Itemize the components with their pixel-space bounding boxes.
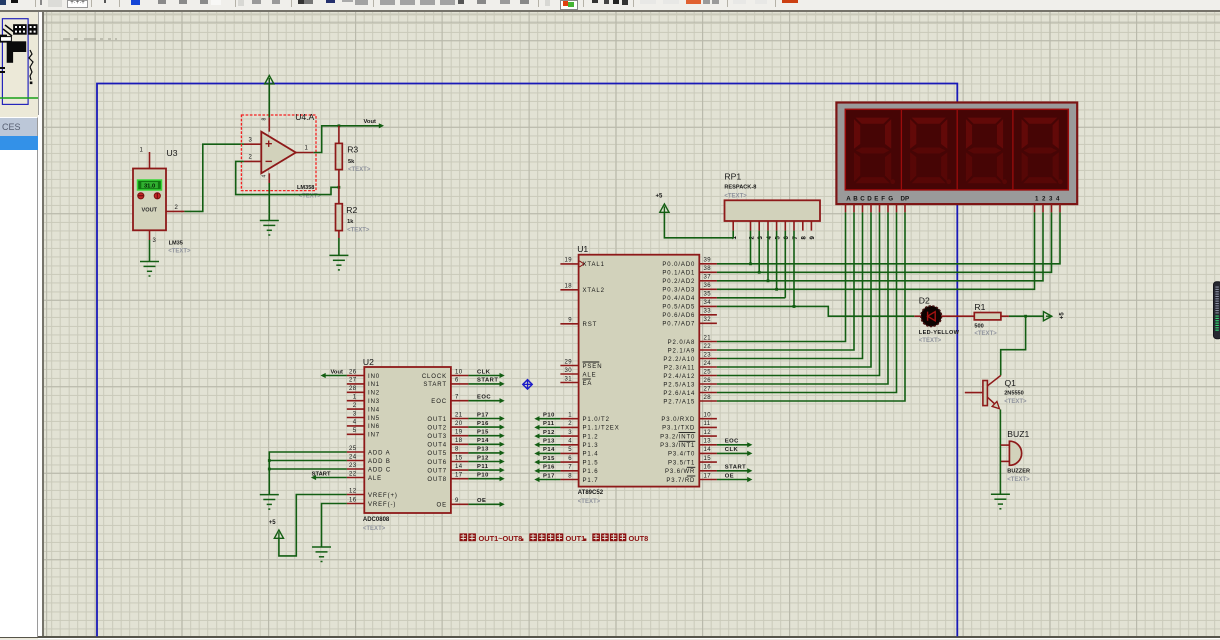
svg-text:39: 39 bbox=[704, 258, 712, 264]
svg-text:OUT8: OUT8 bbox=[427, 477, 447, 483]
svg-text:P10: P10 bbox=[543, 413, 555, 419]
svg-text:OE: OE bbox=[437, 503, 447, 509]
svg-text:P2.4/A12: P2.4/A12 bbox=[663, 374, 695, 380]
svg-text:P1.0/T2: P1.0/T2 bbox=[583, 417, 610, 423]
svg-text:IN2: IN2 bbox=[368, 391, 380, 397]
svg-text:Vout: Vout bbox=[331, 369, 344, 375]
svg-text:22: 22 bbox=[349, 471, 357, 477]
svg-text:P15: P15 bbox=[543, 456, 555, 462]
display digit pin bbox=[1042, 204, 1044, 212]
svg-text:26: 26 bbox=[349, 369, 357, 375]
svg-text:OUT6: OUT6 bbox=[427, 460, 447, 466]
wire U3 pin3 to ground bbox=[149, 240, 151, 262]
U1 pin 10 P3.0/RXD bbox=[699, 418, 717, 420]
ADC U2 (ADC0808) body bbox=[363, 357, 451, 532]
svg-text:23: 23 bbox=[704, 352, 712, 358]
temperature sensor U3 (LM35) bbox=[133, 148, 191, 255]
svg-text:12: 12 bbox=[349, 488, 357, 494]
svg-text:P17: P17 bbox=[543, 473, 555, 479]
U2 pin 28 IN2 bbox=[347, 391, 365, 393]
svg-text:Q1: Q1 bbox=[1005, 378, 1017, 388]
svg-text:1: 1 bbox=[305, 146, 309, 152]
U1 pin 5 P1.4 bbox=[560, 452, 578, 454]
RP1 pin 1 bbox=[732, 221, 734, 231]
svg-text:P3.6/WR: P3.6/WR bbox=[665, 469, 695, 475]
svg-text:25: 25 bbox=[704, 369, 712, 375]
svg-text:24: 24 bbox=[349, 454, 357, 460]
transistor Q1 (2N5550) bbox=[983, 376, 1027, 409]
svg-text:OUT7: OUT7 bbox=[427, 468, 447, 474]
U1 pin 35 P0.4/AD4 bbox=[699, 297, 717, 299]
svg-text:P3.1/TXD: P3.1/TXD bbox=[662, 426, 695, 432]
wire P2.6 to display segment G bbox=[717, 212, 897, 392]
U2 pin 25 ADD A bbox=[347, 451, 365, 453]
RP1 pin 8 bbox=[802, 221, 804, 231]
U1 pin 36 P0.3/AD3 bbox=[699, 288, 717, 290]
svg-text:R3: R3 bbox=[347, 145, 358, 155]
svg-text:P15: P15 bbox=[477, 430, 489, 436]
wire U1 net P11 bbox=[536, 426, 560, 428]
svg-text:P2.7/A15: P2.7/A15 bbox=[663, 399, 695, 405]
svg-text:P0.0/AD0: P0.0/AD0 bbox=[662, 262, 695, 268]
U2 pin 1 IN3 bbox=[347, 400, 365, 402]
svg-text:RP1: RP1 bbox=[724, 172, 741, 182]
display digit pin bbox=[1051, 204, 1053, 212]
LED D2 (LED-YELLOW) bbox=[919, 296, 960, 344]
svg-text:P0.1/AD1: P0.1/AD1 bbox=[662, 271, 695, 277]
svg-text:EOC: EOC bbox=[431, 399, 447, 405]
svg-text:D: D bbox=[867, 195, 872, 202]
svg-text:BUZZER: BUZZER bbox=[1007, 469, 1030, 475]
buzzer BUZ1 bbox=[1007, 429, 1030, 483]
svg-text:VREF(+): VREF(+) bbox=[368, 493, 398, 499]
svg-text:9: 9 bbox=[568, 318, 572, 324]
U2 pin 26 IN0 bbox=[347, 375, 365, 377]
svg-text:21: 21 bbox=[455, 412, 463, 418]
power +5 terminal at RP1 bbox=[660, 204, 669, 212]
svg-text:P3.0/RXD: P3.0/RXD bbox=[661, 417, 695, 423]
svg-text:LED-YELLOW: LED-YELLOW bbox=[919, 330, 960, 336]
svg-text:10: 10 bbox=[704, 413, 712, 419]
U2 pin 10 CLOCK bbox=[451, 375, 469, 377]
svg-text:OUT8: OUT8 bbox=[629, 534, 649, 543]
D2 anode lead bbox=[914, 315, 921, 317]
svg-text:CLOCK: CLOCK bbox=[422, 374, 447, 380]
U1 pin 25 P2.4/A12 bbox=[699, 375, 717, 377]
right edge widget bbox=[1214, 282, 1220, 339]
MCU U1 (AT89C52) body bbox=[577, 244, 699, 505]
svg-text:25: 25 bbox=[349, 446, 357, 452]
U1 pin 11 P3.1/TXD bbox=[699, 426, 717, 428]
svg-text:LM358: LM358 bbox=[297, 185, 314, 191]
svg-text:2: 2 bbox=[175, 205, 179, 211]
svg-text:4: 4 bbox=[568, 439, 572, 445]
RP1 pin 4 bbox=[767, 221, 769, 231]
svg-text:U4.A: U4.A bbox=[295, 112, 314, 122]
U1 pin 37 P0.2/AD2 bbox=[699, 280, 717, 282]
svg-text:13: 13 bbox=[704, 439, 712, 445]
svg-text:31: 31 bbox=[565, 376, 573, 382]
svg-text:35: 35 bbox=[704, 292, 712, 298]
U3 pin 2 bbox=[166, 210, 184, 212]
svg-text:OE: OE bbox=[477, 498, 486, 504]
svg-text:AT89C52: AT89C52 bbox=[578, 490, 604, 496]
junction RP1 pin7 / P0.5 bbox=[793, 305, 796, 308]
junction ADD B bbox=[268, 459, 271, 462]
R1 right lead bbox=[1001, 315, 1009, 317]
svg-text:8: 8 bbox=[802, 236, 808, 240]
svg-text:<TEXT>: <TEXT> bbox=[1004, 399, 1027, 405]
svg-text:17: 17 bbox=[704, 473, 712, 479]
display digit pin bbox=[1034, 204, 1036, 212]
junction feedback / R3-R2 bbox=[338, 186, 341, 189]
svg-text:IN0: IN0 bbox=[368, 374, 380, 380]
U2 pin 7 EOC bbox=[451, 400, 469, 402]
origin marker (blue diamond) bbox=[523, 380, 532, 389]
U1 pin 24 P2.3/A11 bbox=[699, 366, 717, 368]
U1 pin 33 P0.6/AD6 bbox=[699, 314, 717, 316]
U1 pin 13 P3.3/INT1 bbox=[699, 444, 717, 446]
svg-text:<TEXT>: <TEXT> bbox=[168, 249, 191, 255]
svg-text:E: E bbox=[874, 195, 878, 202]
U2 pin 12 VREF(+) bbox=[347, 494, 365, 496]
U4.A pin 3 stub bbox=[244, 143, 261, 145]
svg-text:P0.2/AD2: P0.2/AD2 bbox=[662, 279, 695, 285]
RP1 pin 2 bbox=[750, 221, 752, 231]
svg-text:2: 2 bbox=[568, 421, 572, 427]
wire P2.4 to display segment E bbox=[717, 212, 880, 375]
U1 pin 7 P1.6 bbox=[560, 470, 578, 472]
U1 pin 30 ALE bbox=[560, 373, 578, 375]
svg-text:<TEXT>: <TEXT> bbox=[578, 499, 601, 505]
svg-text:P12: P12 bbox=[543, 430, 555, 436]
Q1 base stub bbox=[965, 392, 983, 394]
svg-text:P1.5: P1.5 bbox=[583, 460, 599, 466]
svg-text:+5: +5 bbox=[269, 520, 277, 526]
svg-text:3: 3 bbox=[568, 430, 572, 436]
RP1 pin 9 bbox=[810, 221, 812, 231]
RP1 pin 5 bbox=[776, 221, 778, 231]
wire RP1 pin5 to P0.3 bbox=[776, 231, 778, 290]
wire U1 net P10 bbox=[536, 418, 560, 420]
svg-text:P16: P16 bbox=[477, 421, 489, 427]
svg-text:1: 1 bbox=[1035, 195, 1039, 202]
svg-text:15: 15 bbox=[704, 456, 712, 462]
svg-text:OUT1: OUT1 bbox=[566, 534, 586, 543]
svg-text:IN4: IN4 bbox=[368, 407, 380, 413]
svg-text:<TEXT>: <TEXT> bbox=[1007, 477, 1030, 483]
svg-text:START: START bbox=[312, 471, 331, 477]
wire P2.1 to display segment B bbox=[717, 212, 854, 350]
wire U1 net P16 bbox=[536, 470, 560, 472]
junction R1 / Q1 branch bbox=[1024, 315, 1027, 318]
sheet border bbox=[97, 84, 957, 637]
svg-text:P13: P13 bbox=[477, 447, 489, 453]
svg-text:37: 37 bbox=[704, 275, 712, 281]
svg-text:ADC0808: ADC0808 bbox=[363, 517, 390, 523]
svg-text:P14: P14 bbox=[543, 447, 555, 453]
svg-text:29: 29 bbox=[565, 359, 573, 365]
svg-text:P17: P17 bbox=[477, 412, 489, 418]
wire U2 net P12 bbox=[468, 461, 502, 463]
display segment pin bbox=[853, 204, 855, 212]
wire U1 net P17 bbox=[536, 479, 560, 481]
svg-text:P3.5/T1: P3.5/T1 bbox=[668, 460, 695, 466]
display digit 1 segments bbox=[854, 118, 895, 185]
R2 bottom lead bbox=[338, 231, 340, 238]
junction Vout / R3 top bbox=[338, 124, 341, 127]
op-amp U4.A triangle bbox=[261, 112, 321, 200]
svg-text:P1.7: P1.7 bbox=[583, 478, 599, 484]
svg-text:14: 14 bbox=[704, 447, 712, 453]
U2 pin 14 OUT7 bbox=[451, 469, 469, 471]
svg-text:B: B bbox=[853, 195, 858, 202]
svg-text:<TEXT>: <TEXT> bbox=[974, 331, 997, 337]
svg-text:2: 2 bbox=[353, 403, 357, 409]
wire U2 net OE bbox=[468, 503, 502, 505]
wire VREF- to ground bbox=[322, 504, 347, 548]
svg-text:32: 32 bbox=[704, 317, 712, 323]
svg-text:P0.4/AD4: P0.4/AD4 bbox=[662, 296, 695, 302]
svg-text:Vout: Vout bbox=[364, 119, 377, 125]
U1 XTAL1 clock chevron bbox=[580, 261, 585, 267]
wire P0.5 to LED D2 bbox=[717, 306, 914, 316]
svg-text:4: 4 bbox=[353, 420, 357, 426]
svg-text:BUZ1: BUZ1 bbox=[1007, 429, 1029, 439]
svg-text:P10: P10 bbox=[477, 473, 489, 479]
wire P0.2 to display digit 2 bbox=[717, 212, 1043, 280]
svg-text:2N5550: 2N5550 bbox=[1004, 391, 1024, 397]
U1 pin 29 PSEN bbox=[560, 365, 578, 367]
svg-text:OUT1: OUT1 bbox=[427, 417, 447, 423]
U1 pin 3 P1.2 bbox=[560, 435, 578, 437]
svg-text:C: C bbox=[860, 195, 865, 202]
display segment pin bbox=[887, 204, 889, 212]
U3 pin 1 bbox=[149, 152, 151, 169]
display digit pin bbox=[1059, 204, 1061, 212]
svg-text:CLK: CLK bbox=[477, 369, 491, 375]
RP1 pin 3 bbox=[758, 221, 760, 231]
ground below R2 bbox=[329, 255, 348, 270]
U1 pin 39 P0.0/AD0 bbox=[699, 263, 717, 265]
power +5 terminal at VREF+ bbox=[274, 530, 283, 538]
svg-text:START: START bbox=[477, 378, 498, 384]
svg-text:26: 26 bbox=[704, 378, 712, 384]
wire U2 net CLK bbox=[468, 375, 502, 377]
svg-text:ADD A: ADD A bbox=[368, 450, 391, 456]
U1 pin 18 XTAL2 bbox=[560, 289, 578, 291]
svg-text:P3.2/INT0: P3.2/INT0 bbox=[660, 434, 695, 440]
svg-text:P1.6: P1.6 bbox=[583, 469, 599, 475]
wire P2.7 to display segment DP bbox=[717, 212, 905, 401]
U1 pin 17 P3.7/RD bbox=[699, 479, 717, 481]
wire P2.3 to display segment D bbox=[717, 212, 871, 367]
U1 pin 21 P2.0/A8 bbox=[699, 341, 717, 343]
U1 pin 31 EA bbox=[560, 382, 578, 384]
svg-text:1k: 1k bbox=[347, 219, 354, 225]
svg-text:3: 3 bbox=[353, 411, 357, 417]
U1 pin 4 P1.3 bbox=[560, 444, 578, 446]
wire U1 net START bbox=[717, 470, 750, 472]
svg-text:+5: +5 bbox=[656, 194, 664, 200]
resistor R3 5k bbox=[336, 143, 371, 173]
svg-text:4: 4 bbox=[261, 175, 267, 178]
wire to Q1 collector bbox=[1001, 316, 1026, 375]
U4.A pin 4 V- stub bbox=[268, 173, 270, 183]
svg-text:U3: U3 bbox=[167, 148, 178, 158]
wire RP1 pin3 to P0.1 bbox=[758, 231, 760, 273]
U2 pin 3 IN5 bbox=[347, 417, 365, 419]
svg-text:VOUT: VOUT bbox=[142, 208, 158, 214]
svg-text:IN7: IN7 bbox=[368, 433, 380, 439]
svg-text:P3.3/INT1: P3.3/INT1 bbox=[660, 443, 695, 449]
wire U1 net CLK bbox=[717, 452, 750, 454]
display segment pin bbox=[879, 204, 881, 212]
U2 pin 20 OUT2 bbox=[451, 426, 469, 428]
wire net Vout to U2 IN0 bbox=[323, 375, 347, 377]
wire RP1 pin2 to P0.0 bbox=[750, 231, 752, 264]
svg-text:7: 7 bbox=[568, 465, 572, 471]
wire U1 net EOC bbox=[717, 444, 750, 446]
power +5 terminal (right-pointing) bbox=[1043, 312, 1051, 321]
svg-text:18: 18 bbox=[455, 438, 463, 444]
svg-text:VREF(-): VREF(-) bbox=[368, 502, 396, 508]
svg-text:36: 36 bbox=[704, 283, 712, 289]
svg-text:28: 28 bbox=[349, 386, 357, 392]
svg-text:3: 3 bbox=[249, 138, 253, 144]
svg-text:U1: U1 bbox=[577, 244, 588, 254]
wire U2 net P14 bbox=[468, 443, 502, 445]
svg-text:4: 4 bbox=[1056, 195, 1060, 202]
svg-text:DP: DP bbox=[901, 195, 910, 202]
U2 pin 22 ALE bbox=[347, 477, 365, 479]
wire BUZ1 to ground bbox=[999, 445, 1001, 494]
U2 pin 17 OUT8 bbox=[451, 478, 469, 480]
wire Q1 emitter to BUZ1 bbox=[999, 410, 1001, 446]
wire op-amp V- to ground bbox=[268, 183, 270, 221]
svg-text:EOC: EOC bbox=[477, 395, 491, 401]
wire U2 net P16 bbox=[468, 426, 502, 428]
U2 pin 16 VREF(-) bbox=[347, 503, 365, 505]
ground below op-amp bbox=[260, 221, 279, 236]
ground for ADD A/B/C bbox=[260, 495, 279, 510]
wire VREF+ to +5 bbox=[279, 495, 347, 556]
svg-text:P16: P16 bbox=[543, 465, 555, 471]
U1 pin 32 P0.7/AD7 bbox=[699, 322, 717, 324]
svg-text:P12: P12 bbox=[477, 455, 489, 461]
svg-text:+5: +5 bbox=[1060, 312, 1066, 320]
wire U1 net P15 bbox=[536, 461, 560, 463]
svg-text:<TEXT>: <TEXT> bbox=[919, 338, 942, 344]
U4.A pin 1 (output) stub bbox=[296, 152, 314, 154]
svg-text:34: 34 bbox=[704, 300, 712, 306]
resistor R1 500 bbox=[974, 302, 1001, 337]
U1 pin 9 RST bbox=[560, 323, 578, 325]
svg-text:XTAL1: XTAL1 bbox=[583, 262, 605, 268]
wire op-amp output to node Vout bbox=[314, 126, 382, 153]
svg-text:31.0: 31.0 bbox=[144, 184, 155, 190]
svg-text:28: 28 bbox=[704, 395, 712, 401]
svg-text:6: 6 bbox=[568, 456, 572, 462]
svg-text:P2.6/A14: P2.6/A14 bbox=[663, 391, 695, 397]
U1 pin 28 P2.7/A15 bbox=[699, 400, 717, 402]
wire R2 to ground bbox=[338, 238, 340, 255]
wire P0.4 to RP1 pin6 bbox=[717, 297, 785, 299]
svg-text:PSEN: PSEN bbox=[583, 364, 603, 370]
U4.A pin 8 V+ stub bbox=[268, 117, 270, 131]
U1 pin 23 P2.2/A10 bbox=[699, 358, 717, 360]
U1 pin 15 P3.5/T1 bbox=[699, 461, 717, 463]
svg-text:6: 6 bbox=[455, 378, 459, 384]
svg-text:12: 12 bbox=[704, 430, 712, 436]
svg-text:A: A bbox=[846, 195, 851, 202]
svg-text:8: 8 bbox=[455, 447, 459, 453]
svg-text:START: START bbox=[725, 465, 746, 471]
faint leftover marks bbox=[63, 38, 117, 40]
U4.A pin 2 stub bbox=[244, 160, 261, 162]
svg-text:P0.6/AD6: P0.6/AD6 bbox=[662, 313, 695, 319]
svg-text:24: 24 bbox=[704, 361, 712, 367]
svg-text:OUT5: OUT5 bbox=[427, 451, 447, 457]
svg-text:<TEXT>: <TEXT> bbox=[724, 193, 747, 199]
U1 pin 26 P2.5/A13 bbox=[699, 383, 717, 385]
svg-text:P3.4/T0: P3.4/T0 bbox=[668, 452, 695, 458]
U2 pin 9 OE bbox=[451, 503, 469, 505]
ground at VREF- bbox=[312, 547, 331, 562]
svg-text:5: 5 bbox=[353, 428, 357, 434]
svg-text:5k: 5k bbox=[348, 159, 355, 165]
U1 pin 19 XTAL1 bbox=[560, 263, 578, 265]
wire RP1 pin1 to +5 bbox=[664, 213, 733, 238]
U1 pin 22 P2.1/A9 bbox=[699, 349, 717, 351]
wire RP1 pin6 to P0.4 bbox=[784, 231, 786, 298]
wire U1 net P12 bbox=[536, 435, 560, 437]
U2 pin 23 ADD C bbox=[347, 468, 365, 470]
U2 pin 6 START bbox=[451, 383, 469, 385]
svg-text:OUT1~OUT8: OUT1~OUT8 bbox=[479, 534, 523, 543]
display inner panel bbox=[845, 109, 1068, 190]
wire U1 net P13 bbox=[536, 444, 560, 446]
svg-text:P13: P13 bbox=[543, 439, 555, 445]
svg-text:RESPACK-8: RESPACK-8 bbox=[724, 185, 756, 191]
BUZ1 leads bbox=[1000, 444, 1009, 446]
svg-text:XTAL2: XTAL2 bbox=[583, 288, 605, 294]
svg-text:3: 3 bbox=[153, 238, 157, 244]
svg-text:IN1: IN1 bbox=[368, 382, 380, 388]
wire P2.2 to display segment C bbox=[717, 212, 863, 358]
display DS1 (4-digit 7-seg) outer bbox=[836, 103, 1077, 205]
svg-text:R1: R1 bbox=[974, 302, 985, 312]
wire U2 net P11 bbox=[468, 469, 502, 471]
svg-text:500: 500 bbox=[974, 323, 983, 329]
wire P2.0 to display segment A bbox=[717, 212, 846, 341]
U1 pin 8 P1.7 bbox=[560, 479, 578, 481]
RP1 pin 7 bbox=[793, 221, 795, 231]
svg-text:OUT4: OUT4 bbox=[427, 443, 447, 449]
U1 pin 1 P1.0/T2 bbox=[560, 418, 578, 420]
wire P0.3 to display digit 1 bbox=[717, 212, 1035, 289]
svg-text:8: 8 bbox=[568, 473, 572, 479]
U2 pin 2 IN4 bbox=[347, 408, 365, 410]
display digit 3 segments bbox=[966, 118, 1007, 185]
svg-text:2: 2 bbox=[249, 155, 253, 161]
U1 pin 34 P0.5/AD5 bbox=[699, 305, 717, 307]
U2 pin 5 IN7 bbox=[347, 433, 365, 435]
svg-text:22: 22 bbox=[704, 344, 712, 350]
svg-text:RST: RST bbox=[583, 322, 598, 328]
svg-text:OUT2: OUT2 bbox=[427, 425, 447, 431]
svg-text:D2: D2 bbox=[919, 296, 930, 306]
